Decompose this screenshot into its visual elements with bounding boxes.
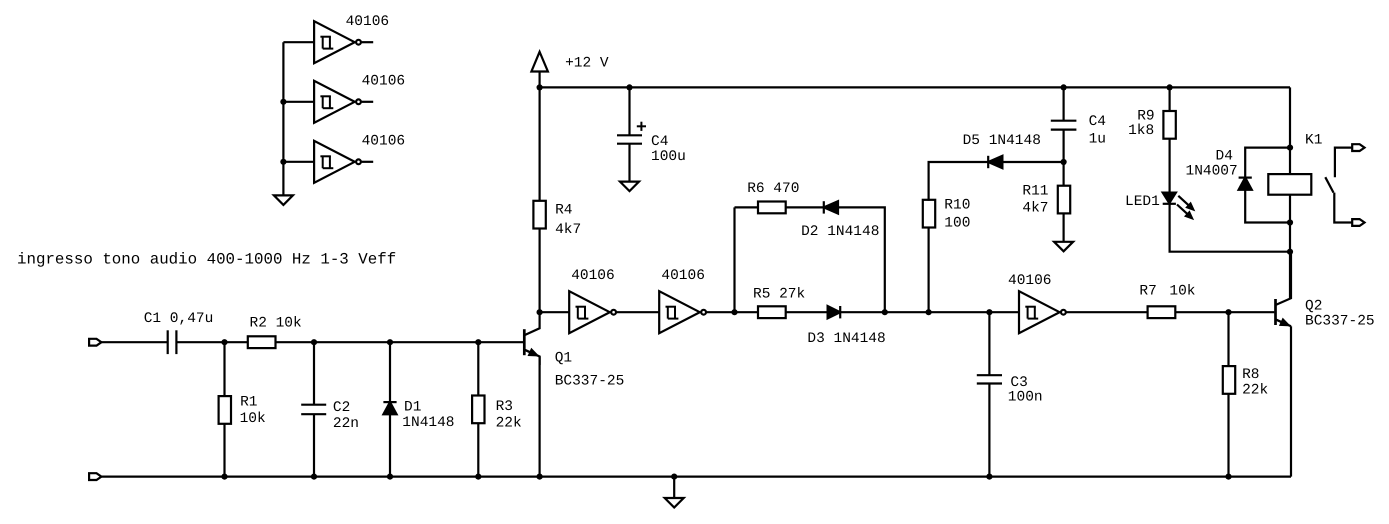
wire R8 to bottom rail — [1227, 394, 1229, 477]
svg-text:22n: 22n — [333, 416, 359, 432]
wire bus to R4 — [538, 87, 540, 200]
diode D5 1N4148 — [988, 156, 1002, 168]
node Q1 collector junction — [537, 309, 543, 315]
ground under C4 — [620, 182, 639, 192]
wire U1E out to node C — [707, 311, 758, 313]
resistor R7 — [1148, 306, 1176, 318]
wire R10 top to D5 — [929, 162, 989, 201]
wire node E to R11 — [1062, 162, 1064, 186]
svg-text:D3 1N4148: D3 1N4148 — [807, 331, 885, 347]
wire relay bottom lead — [1289, 195, 1291, 252]
transistor Q2 BC337-25 — [1274, 299, 1277, 325]
wire node B to C2 — [313, 342, 315, 405]
node E (C4b/R11/D5) — [1061, 159, 1067, 165]
ground main — [665, 498, 684, 508]
svg-text:22k: 22k — [496, 416, 522, 432]
node D1 tap — [387, 339, 393, 345]
wire U1F out to R7 — [1066, 311, 1147, 313]
node bottom D1 — [387, 474, 393, 480]
label C4 plus sign — [637, 122, 646, 131]
wire input stub inverter U1A — [283, 41, 314, 43]
svg-text:C4: C4 — [651, 134, 668, 150]
svg-text:LED1: LED1 — [1125, 194, 1160, 210]
LED LED1 — [1163, 193, 1176, 204]
wire up-branch left — [735, 206, 758, 208]
svg-text:+12 V: +12 V — [565, 56, 609, 72]
wire signal to C3 — [988, 312, 990, 375]
svg-text:R6 470: R6 470 — [747, 181, 799, 197]
terminal K1 top — [1352, 144, 1364, 151]
node relay bottom — [1287, 219, 1293, 225]
svg-text:R4: R4 — [555, 203, 572, 219]
power +12V arrow — [531, 52, 548, 72]
svg-text:Q1: Q1 — [555, 351, 572, 367]
LED1 light arrows — [1178, 196, 1189, 206]
node +12V at R4 — [537, 84, 543, 90]
wire bus to C4b — [1062, 87, 1064, 120]
svg-text:R2 10k: R2 10k — [250, 316, 302, 332]
wire top bus right drop — [1289, 87, 1291, 147]
svg-text:BC337-25: BC337-25 — [555, 374, 625, 390]
wire R6 to D2 — [786, 206, 824, 208]
inverter U1B (unused 40106 gate) — [314, 81, 355, 123]
svg-text:40106: 40106 — [571, 268, 615, 284]
wire Q2 emitter to bottom rail — [1290, 326, 1292, 476]
wire R1 to bottom rail — [223, 424, 225, 477]
wire U1D out to U1E — [617, 311, 660, 313]
diode D4 1N4007 — [1239, 177, 1252, 179]
wire R11 to ground — [1062, 213, 1064, 242]
wire relay node to Q2 — [1289, 252, 1291, 299]
wire D4 to relay bottom — [1245, 190, 1290, 223]
wire Q1 emitter to bottom rail — [538, 357, 540, 477]
node +12V at R9 — [1167, 84, 1173, 90]
wire R9 to LED — [1168, 139, 1170, 193]
node junction bus-U1C — [280, 159, 286, 165]
resistor R6 — [758, 202, 786, 214]
wire node C up — [733, 207, 735, 312]
diode D2 1N4148 — [824, 201, 838, 213]
svg-text:R7: R7 — [1139, 283, 1156, 299]
wire bus to C4 — [628, 87, 630, 135]
wire Q1 collector to U1D — [540, 311, 570, 313]
svg-text:1N4148: 1N4148 — [402, 415, 454, 431]
switch K1 blade — [1325, 177, 1333, 192]
capacitor C1 0,47u — [167, 330, 169, 354]
node C3 top — [986, 309, 992, 315]
node bottom Q1 — [537, 474, 543, 480]
svg-text:R3: R3 — [496, 399, 513, 415]
wire relay top lead — [1289, 148, 1291, 175]
svg-text:R1: R1 — [240, 395, 257, 411]
node bottom C3 — [986, 474, 992, 480]
wire node D to U1F — [929, 311, 1019, 313]
relay K1 coil — [1268, 174, 1311, 195]
inverter U1D 40106 — [569, 291, 610, 333]
wire output stub U1A — [362, 41, 374, 43]
wire output stub U1B — [362, 101, 374, 103]
svg-text:C4: C4 — [1089, 114, 1106, 130]
wire C1 to node A — [176, 341, 248, 343]
svg-text:C2: C2 — [333, 400, 350, 416]
wire R8 top wire — [1227, 312, 1229, 366]
diode D3 1N4148 — [828, 306, 841, 318]
wire node A to R1 — [223, 342, 225, 396]
svg-text:1N4007: 1N4007 — [1186, 163, 1238, 179]
svg-text:10k: 10k — [240, 411, 266, 427]
svg-text:1k8: 1k8 — [1128, 123, 1154, 139]
wire D2 to node D — [838, 207, 885, 312]
svg-text:K1: K1 — [1305, 133, 1322, 149]
resistor R11 — [1058, 186, 1070, 214]
ground inverter-block — [274, 195, 293, 205]
node A (C1/R1/R2) — [221, 339, 227, 345]
node +12V at C4 — [626, 84, 632, 90]
wire R4 to Q1 collector node — [538, 229, 540, 313]
svg-text:R8: R8 — [1242, 367, 1259, 383]
resistor R2 — [248, 336, 276, 348]
svg-text:40106: 40106 — [1008, 273, 1052, 289]
node bottom R1 — [221, 474, 227, 480]
node D (branches rejoin) — [882, 309, 888, 315]
transistor Q1 BC337-25 — [523, 329, 526, 355]
svg-text:Q2: Q2 — [1305, 299, 1322, 315]
wire ground stem — [673, 477, 675, 498]
wire K1 bottom contact — [1334, 193, 1352, 223]
node junction bus-U1B — [280, 99, 286, 105]
node bottom ground — [671, 474, 677, 480]
svg-text:10k: 10k — [1169, 283, 1195, 299]
svg-text:40106: 40106 — [362, 133, 406, 149]
terminal input bottom — [89, 473, 101, 480]
wire R10 to signal — [927, 227, 929, 313]
inverter U1E 40106 — [659, 291, 700, 333]
wire input stub inverter U1C — [283, 161, 314, 163]
wire C4 to ground — [628, 144, 630, 182]
wire K1 top contact — [1335, 148, 1352, 178]
svg-text:40106: 40106 — [661, 268, 705, 284]
ground under R11 — [1054, 242, 1073, 252]
resistor R10 — [923, 200, 935, 228]
svg-text:D5 1N4148: D5 1N4148 — [963, 133, 1041, 149]
capacitor C2 22n — [301, 404, 326, 406]
wire D1 to bottom rail — [389, 414, 391, 476]
svg-text:40106: 40106 — [346, 14, 390, 30]
wire R7 to Q2 base — [1175, 311, 1274, 313]
svg-text:100: 100 — [944, 215, 970, 231]
svg-text:R11: R11 — [1022, 184, 1048, 200]
svg-text:D4: D4 — [1216, 149, 1233, 165]
diode D1 1N4148 — [383, 401, 396, 403]
wire +12V top bus — [540, 86, 1290, 88]
wire output stub U1C — [362, 161, 374, 163]
svg-text:D1: D1 — [404, 399, 421, 415]
svg-text:D2 1N4148: D2 1N4148 — [801, 224, 879, 240]
svg-text:4k7: 4k7 — [555, 222, 581, 238]
resistor R1 — [219, 396, 231, 424]
svg-text:ingresso tono audio 400-1000 H: ingresso tono audio 400-1000 Hz 1-3 Veff — [17, 251, 396, 269]
capacitor C4 100u — [617, 134, 642, 136]
svg-text:C1 0,47u: C1 0,47u — [144, 311, 214, 327]
node relay top — [1287, 145, 1293, 151]
wire rail to R3 — [477, 342, 479, 396]
svg-text:22k: 22k — [1242, 383, 1268, 399]
node R8 top — [1225, 309, 1231, 315]
svg-text:100u: 100u — [651, 149, 686, 165]
wire input to C1 — [101, 341, 167, 343]
wire inverter-block input bus — [282, 42, 284, 195]
resistor R5 — [758, 306, 786, 318]
wire LED to relay node — [1170, 204, 1290, 252]
terminal input top — [89, 339, 101, 346]
wire R3 to bottom rail — [477, 423, 479, 477]
node relay/Q2 collector — [1287, 249, 1293, 255]
svg-text:BC337-25: BC337-25 — [1305, 314, 1375, 330]
svg-text:40106: 40106 — [362, 73, 406, 89]
wire +12V arrow to bus — [538, 72, 540, 88]
wire C2 to bottom rail — [313, 414, 315, 476]
wire relay top to D4 — [1245, 148, 1290, 178]
node B (R2/C2) — [311, 339, 317, 345]
wire rail to D1 — [389, 342, 391, 402]
inverter U1F 40106 — [1019, 291, 1060, 333]
resistor R3 — [472, 396, 484, 424]
wire bus to R9 — [1168, 87, 1170, 111]
svg-text:4k7: 4k7 — [1022, 200, 1048, 216]
wire C4b to node E — [1062, 130, 1064, 162]
node bottom R8 — [1225, 474, 1231, 480]
node bottom C2 — [311, 474, 317, 480]
inverter U1C (unused 40106 gate) — [314, 141, 355, 183]
capacitor C4 1u — [1051, 120, 1077, 122]
wire D3 to node D — [839, 311, 929, 313]
resistor R4 — [533, 201, 545, 229]
capacitor C3 100n — [977, 374, 1002, 376]
wire C3 to bottom rail — [988, 384, 990, 477]
resistor R9 — [1163, 111, 1175, 139]
node +12V at C4b — [1061, 84, 1067, 90]
node R3 tap — [475, 339, 481, 345]
svg-text:100n: 100n — [1008, 389, 1043, 405]
wire bottom rail — [101, 476, 1291, 478]
svg-text:1u: 1u — [1089, 132, 1106, 148]
svg-text:R10: R10 — [944, 197, 970, 213]
inverter U1A (unused 40106 gate) — [314, 21, 355, 63]
wire R2 to node B — [275, 341, 523, 343]
node C (R5/R6 split) — [731, 309, 737, 315]
wire R5 to D3 — [786, 311, 828, 313]
wire input stub inverter U1B — [283, 101, 314, 103]
node bottom R3 — [475, 474, 481, 480]
node R10 bottom — [926, 309, 932, 315]
terminal K1 bottom — [1352, 219, 1364, 226]
wire D5 to node E — [1002, 161, 1063, 163]
svg-text:R5 27k: R5 27k — [753, 287, 805, 303]
resistor R8 — [1223, 366, 1235, 394]
